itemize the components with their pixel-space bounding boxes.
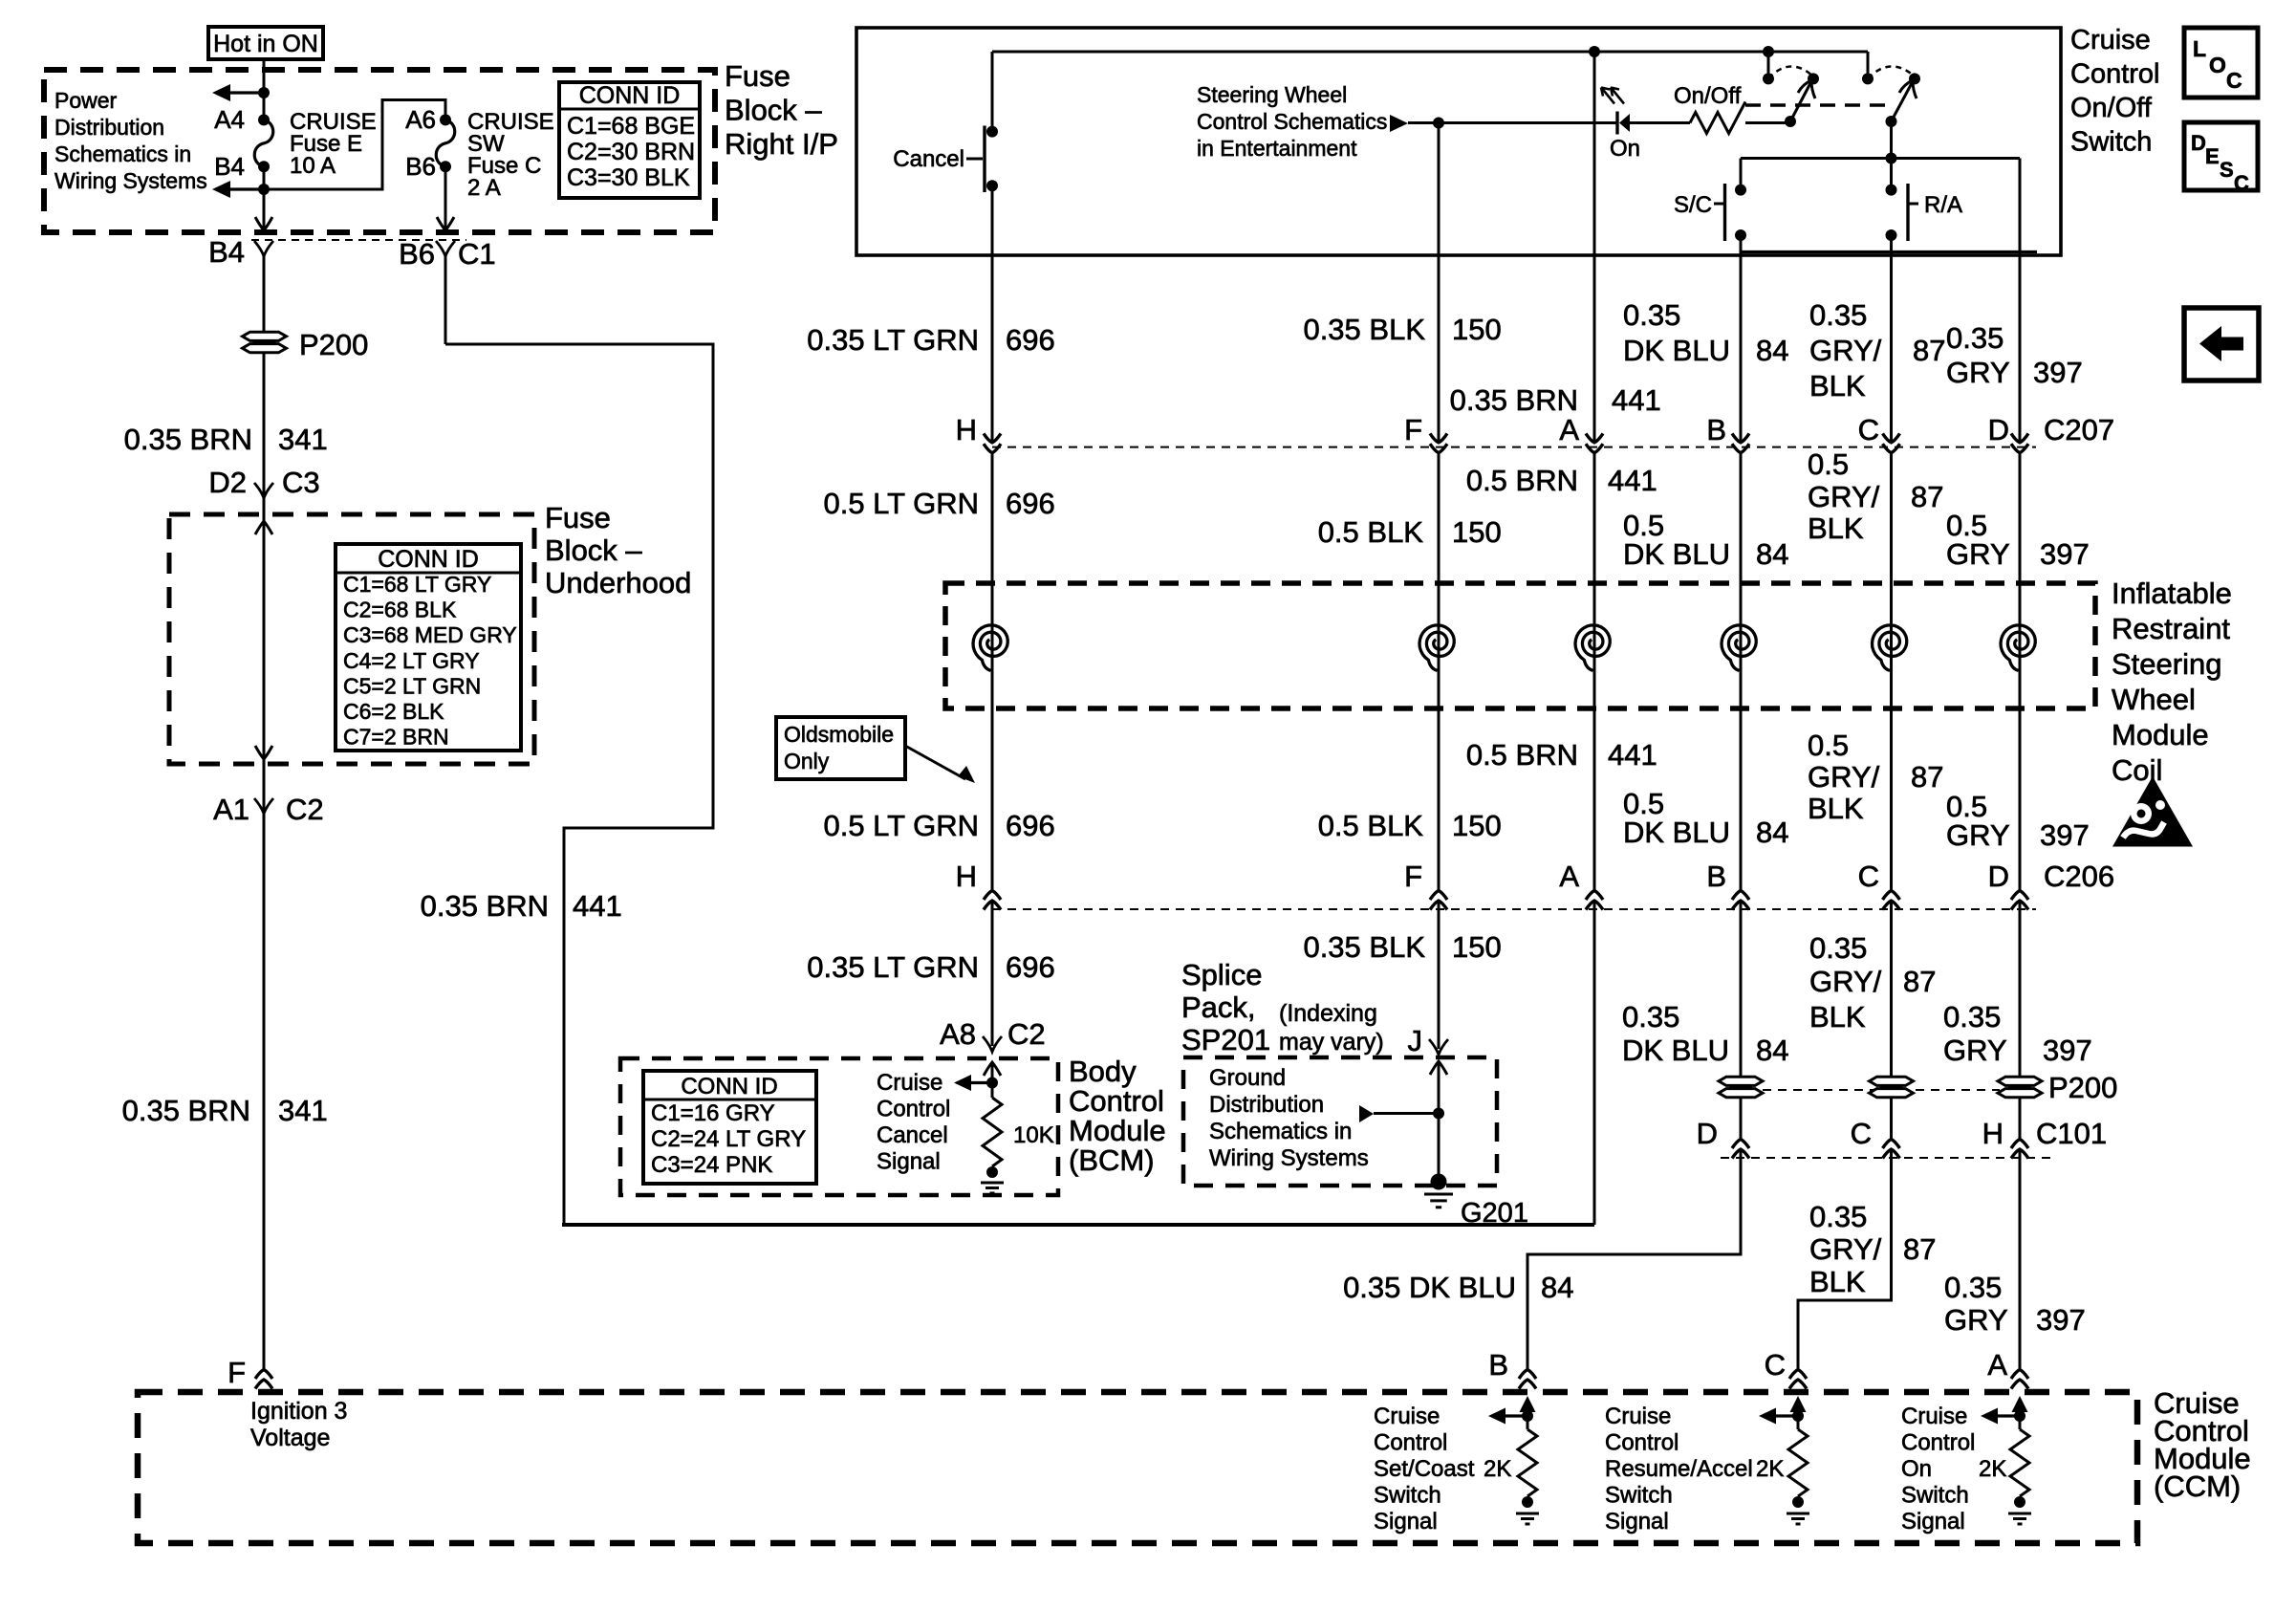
svg-text:0.35 BRN: 0.35 BRN [124,423,252,456]
svg-text:C1=68 BGE: C1=68 BGE [567,113,695,140]
svg-text:0.5: 0.5 [1808,729,1849,762]
svg-text:C3=68 MED GRY: C3=68 MED GRY [343,622,517,647]
svg-text:GRY/: GRY/ [1809,334,1882,367]
svg-text:D2: D2 [208,466,247,499]
svg-text:Underhood: Underhood [545,566,691,599]
svg-text:SP201: SP201 [1181,1023,1270,1056]
svg-text:Cruise: Cruise [877,1070,942,1096]
svg-text:C1=16 GRY: C1=16 GRY [651,1100,775,1126]
svg-text:C206: C206 [2044,860,2114,893]
svg-text:2K: 2K [1484,1456,1511,1482]
svg-text:E: E [2205,144,2220,168]
svg-text:CONN ID: CONN ID [378,546,479,573]
svg-text:C: C [2226,68,2242,93]
svg-text:P200: P200 [2048,1071,2117,1104]
svg-text:Block –: Block – [545,533,642,567]
svg-text:0.35 LT GRN: 0.35 LT GRN [807,323,979,357]
svg-text:0.5 BLK: 0.5 BLK [1318,515,1424,549]
svg-text:0.35 BRN: 0.35 BRN [122,1094,250,1127]
svg-text:341: 341 [278,423,328,456]
svg-text:Wiring Systems: Wiring Systems [1209,1145,1369,1171]
svg-text:C1: C1 [458,237,496,271]
svg-text:0.5: 0.5 [1808,447,1849,481]
svg-text:GRY/: GRY/ [1809,1232,1882,1266]
svg-text:DK BLU: DK BLU [1622,1034,1729,1067]
svg-text:696: 696 [1006,323,1055,357]
svg-text:A: A [1559,860,1579,893]
svg-text:CONN ID: CONN ID [681,1074,777,1099]
svg-text:Splice: Splice [1181,958,1262,991]
svg-text:0.35 LT GRN: 0.35 LT GRN [807,950,979,984]
svg-text:84: 84 [1756,816,1788,849]
svg-text:(BCM): (BCM) [1069,1143,1155,1177]
svg-text:(CCM): (CCM) [2154,1469,2241,1503]
svg-text:10 A: 10 A [290,153,336,179]
svg-text:Hot in ON: Hot in ON [213,31,318,57]
svg-text:C3: C3 [282,466,320,499]
svg-text:C: C [1851,1117,1872,1150]
svg-text:C4=2 LT GRY: C4=2 LT GRY [343,648,480,673]
svg-text:G201: G201 [1461,1198,1528,1229]
svg-text:Cruise: Cruise [2070,25,2151,55]
svg-text:P200: P200 [299,328,368,361]
svg-text:GRY/: GRY/ [1808,480,1880,513]
svg-text:may vary): may vary) [1279,1029,1384,1056]
svg-text:696: 696 [1006,809,1055,842]
svg-text:B6: B6 [405,152,436,181]
svg-text:87: 87 [1903,965,1936,998]
svg-text:Signal: Signal [877,1149,941,1175]
svg-text:Control: Control [877,1097,950,1122]
svg-text:Cruise: Cruise [1605,1404,1671,1429]
svg-text:C2: C2 [1007,1017,1046,1051]
svg-text:696: 696 [1006,487,1055,520]
svg-text:0.35 DK BLU: 0.35 DK BLU [1343,1271,1516,1304]
svg-text:Ground: Ground [1209,1065,1286,1091]
svg-text:0.5 BRN: 0.5 BRN [1466,464,1578,497]
svg-text:0.35: 0.35 [1943,1000,2001,1034]
svg-text:C207: C207 [2044,413,2114,446]
svg-text:On: On [1901,1456,1932,1482]
svg-text:C5=2 LT GRN: C5=2 LT GRN [343,673,481,698]
svg-text:150: 150 [1452,313,1502,346]
svg-text:C: C [1858,413,1879,446]
svg-text:S: S [2220,158,2234,182]
svg-text:Signal: Signal [1605,1509,1669,1535]
svg-text:B: B [1706,413,1726,446]
svg-text:BLK: BLK [1808,512,1864,545]
svg-text:C2=68 BLK: C2=68 BLK [343,598,457,622]
svg-text:D: D [2191,131,2206,155]
svg-text:Switch: Switch [1901,1483,1969,1509]
svg-text:Steering: Steering [2112,647,2221,681]
svg-text:A: A [1987,1348,2007,1382]
svg-text:B4: B4 [208,235,245,269]
svg-text:DK BLU: DK BLU [1623,816,1730,849]
svg-text:Wiring Systems: Wiring Systems [54,168,207,193]
svg-text:397: 397 [2043,1034,2092,1067]
svg-text:GRY: GRY [1944,1303,2008,1337]
svg-text:C: C [1858,860,1879,893]
svg-text:0.35: 0.35 [1809,1200,1867,1233]
svg-text:Switch: Switch [1605,1483,1673,1509]
svg-text:DK BLU: DK BLU [1623,334,1730,367]
svg-text:Cancel: Cancel [877,1122,948,1148]
svg-text:84: 84 [1541,1271,1573,1304]
svg-text:D: D [1988,860,2009,893]
svg-text:C3=24 PNK: C3=24 PNK [651,1152,772,1178]
svg-text:0.5 BRN: 0.5 BRN [1466,738,1578,772]
svg-text:C: C [1765,1348,1786,1382]
svg-text:C7=2 BRN: C7=2 BRN [343,725,449,750]
svg-text:On/Off: On/Off [1674,83,1742,109]
svg-text:441: 441 [1608,464,1657,497]
svg-text:Schematics in: Schematics in [54,142,191,166]
svg-text:GRY: GRY [1946,537,2010,571]
svg-text:L: L [2193,36,2206,61]
svg-text:C3=30 BLK: C3=30 BLK [567,164,690,191]
svg-text:Control: Control [1901,1430,1975,1456]
svg-text:397: 397 [2033,356,2083,389]
svg-text:0.35 BRN: 0.35 BRN [421,889,549,923]
svg-text:Restraint: Restraint [2112,612,2230,645]
svg-text:0.35: 0.35 [1944,1271,2002,1304]
svg-text:0.35 BLK: 0.35 BLK [1303,930,1425,964]
svg-text:Resume/Accel: Resume/Accel [1605,1456,1753,1482]
svg-text:Schematics in: Schematics in [1209,1119,1352,1144]
svg-text:Cruise: Cruise [1374,1404,1440,1429]
svg-text:0.35: 0.35 [1623,298,1680,332]
svg-text:Distribution: Distribution [1209,1092,1324,1118]
svg-text:Oldsmobile: Oldsmobile [784,722,894,747]
svg-text:Power: Power [54,88,118,113]
svg-text:Signal: Signal [1901,1509,1965,1535]
svg-text:C1=68 LT GRY: C1=68 LT GRY [343,572,491,597]
svg-text:397: 397 [2036,1303,2086,1337]
svg-text:10K: 10K [1013,1122,1054,1148]
svg-text:2K: 2K [1979,1456,2006,1482]
svg-text:696: 696 [1006,950,1055,984]
svg-text:GRY: GRY [1946,818,2010,852]
svg-text:C: C [2234,171,2249,195]
svg-text:(Indexing: (Indexing [1279,1000,1377,1027]
svg-text:B: B [1488,1348,1508,1382]
svg-text:BLK: BLK [1808,792,1864,825]
svg-text:0.35 BLK: 0.35 BLK [1303,313,1425,346]
svg-text:On/Off: On/Off [2070,93,2153,123]
svg-text:H: H [956,860,977,893]
svg-text:341: 341 [278,1094,328,1127]
svg-text:Fuse: Fuse [545,501,611,534]
svg-text:BLK: BLK [1809,1000,1866,1034]
svg-text:C2: C2 [286,793,324,826]
svg-text:Set/Coast: Set/Coast [1374,1456,1475,1482]
svg-text:Switch: Switch [1374,1483,1441,1509]
svg-text:84: 84 [1756,537,1788,571]
svg-text:A6: A6 [405,105,436,134]
svg-text:150: 150 [1452,515,1502,549]
svg-text:CONN ID: CONN ID [579,82,681,109]
svg-text:87: 87 [1911,480,1943,513]
svg-text:397: 397 [2040,537,2090,571]
svg-text:87: 87 [1911,760,1943,794]
svg-text:F: F [227,1356,246,1389]
svg-text:Control Schematics: Control Schematics [1197,109,1387,134]
svg-text:441: 441 [1608,738,1657,772]
svg-text:D: D [1988,413,2009,446]
svg-text:Switch: Switch [2070,127,2152,158]
svg-text:C2=30 BRN: C2=30 BRN [567,139,695,165]
svg-text:BLK: BLK [1809,1265,1866,1298]
svg-text:Steering Wheel: Steering Wheel [1197,82,1347,107]
svg-text:A8: A8 [940,1017,976,1051]
svg-text:150: 150 [1452,809,1502,842]
svg-text:0.35: 0.35 [1809,931,1867,965]
svg-text:A: A [1559,413,1579,446]
svg-text:H: H [1982,1117,2004,1150]
svg-text:On: On [1610,136,1640,162]
svg-text:150: 150 [1452,930,1502,964]
svg-text:Control: Control [1374,1430,1447,1456]
svg-text:Inflatable: Inflatable [2112,577,2232,610]
svg-text:C2=24 LT GRY: C2=24 LT GRY [651,1126,806,1152]
svg-text:441: 441 [1612,383,1661,417]
svg-text:2 A: 2 A [467,175,501,201]
svg-text:Control: Control [1605,1430,1679,1456]
svg-text:Only: Only [784,749,830,773]
svg-text:H: H [956,413,977,446]
svg-text:Control: Control [1069,1084,1164,1118]
svg-text:0.35: 0.35 [1809,298,1867,332]
svg-text:87: 87 [1903,1232,1936,1266]
svg-text:R/A: R/A [1924,192,1962,218]
svg-text:397: 397 [2040,818,2090,852]
svg-text:84: 84 [1756,1034,1788,1067]
svg-text:A1: A1 [213,793,249,826]
svg-text:in Entertainment: in Entertainment [1197,136,1357,161]
svg-text:S/C: S/C [1674,192,1712,218]
svg-text:Voltage: Voltage [250,1425,330,1451]
svg-text:D: D [1697,1117,1718,1150]
svg-text:Fuse: Fuse [725,59,791,93]
svg-text:GRY: GRY [1943,1034,2007,1067]
svg-text:Body: Body [1069,1055,1137,1088]
svg-text:J: J [1408,1024,1423,1057]
svg-text:Right I/P: Right I/P [725,127,838,161]
svg-text:84: 84 [1756,334,1788,367]
svg-text:0.5 LT GRN: 0.5 LT GRN [823,487,979,520]
svg-text:441: 441 [573,889,622,923]
svg-text:2K: 2K [1756,1456,1784,1482]
svg-text:B: B [1706,860,1726,893]
svg-text:Control: Control [2070,59,2160,90]
svg-text:0.5 LT GRN: 0.5 LT GRN [823,809,979,842]
svg-text:C101: C101 [2036,1117,2107,1150]
svg-text:Pack,: Pack, [1181,991,1256,1024]
svg-text:Module: Module [1069,1114,1166,1147]
svg-text:F: F [1404,860,1422,893]
svg-text:0.35 BRN: 0.35 BRN [1450,383,1578,417]
svg-text:0.5 BLK: 0.5 BLK [1318,809,1424,842]
svg-text:Block –: Block – [725,94,822,127]
svg-text:BLK: BLK [1809,369,1866,403]
svg-text:0.35: 0.35 [1622,1000,1679,1034]
svg-text:Wheel: Wheel [2112,683,2196,716]
svg-text:F: F [1404,413,1422,446]
svg-text:GRY/: GRY/ [1808,760,1880,794]
svg-text:GRY/: GRY/ [1809,965,1882,998]
svg-text:Distribution: Distribution [54,115,164,140]
svg-text:A4: A4 [214,105,245,134]
svg-text:Module: Module [2112,718,2209,751]
svg-text:B4: B4 [214,152,245,181]
svg-text:GRY: GRY [1946,356,2010,389]
svg-text:B6: B6 [399,237,435,271]
svg-text:Cruise: Cruise [1901,1404,1967,1429]
svg-text:O: O [2209,53,2226,77]
svg-text:87: 87 [1913,334,1945,367]
svg-text:Ignition 3: Ignition 3 [250,1398,347,1425]
svg-text:C6=2 BLK: C6=2 BLK [343,699,444,724]
svg-text:0.35: 0.35 [1946,321,2004,355]
svg-text:DK BLU: DK BLU [1623,537,1730,571]
svg-text:Cancel: Cancel [893,146,964,172]
svg-text:Signal: Signal [1374,1509,1438,1535]
